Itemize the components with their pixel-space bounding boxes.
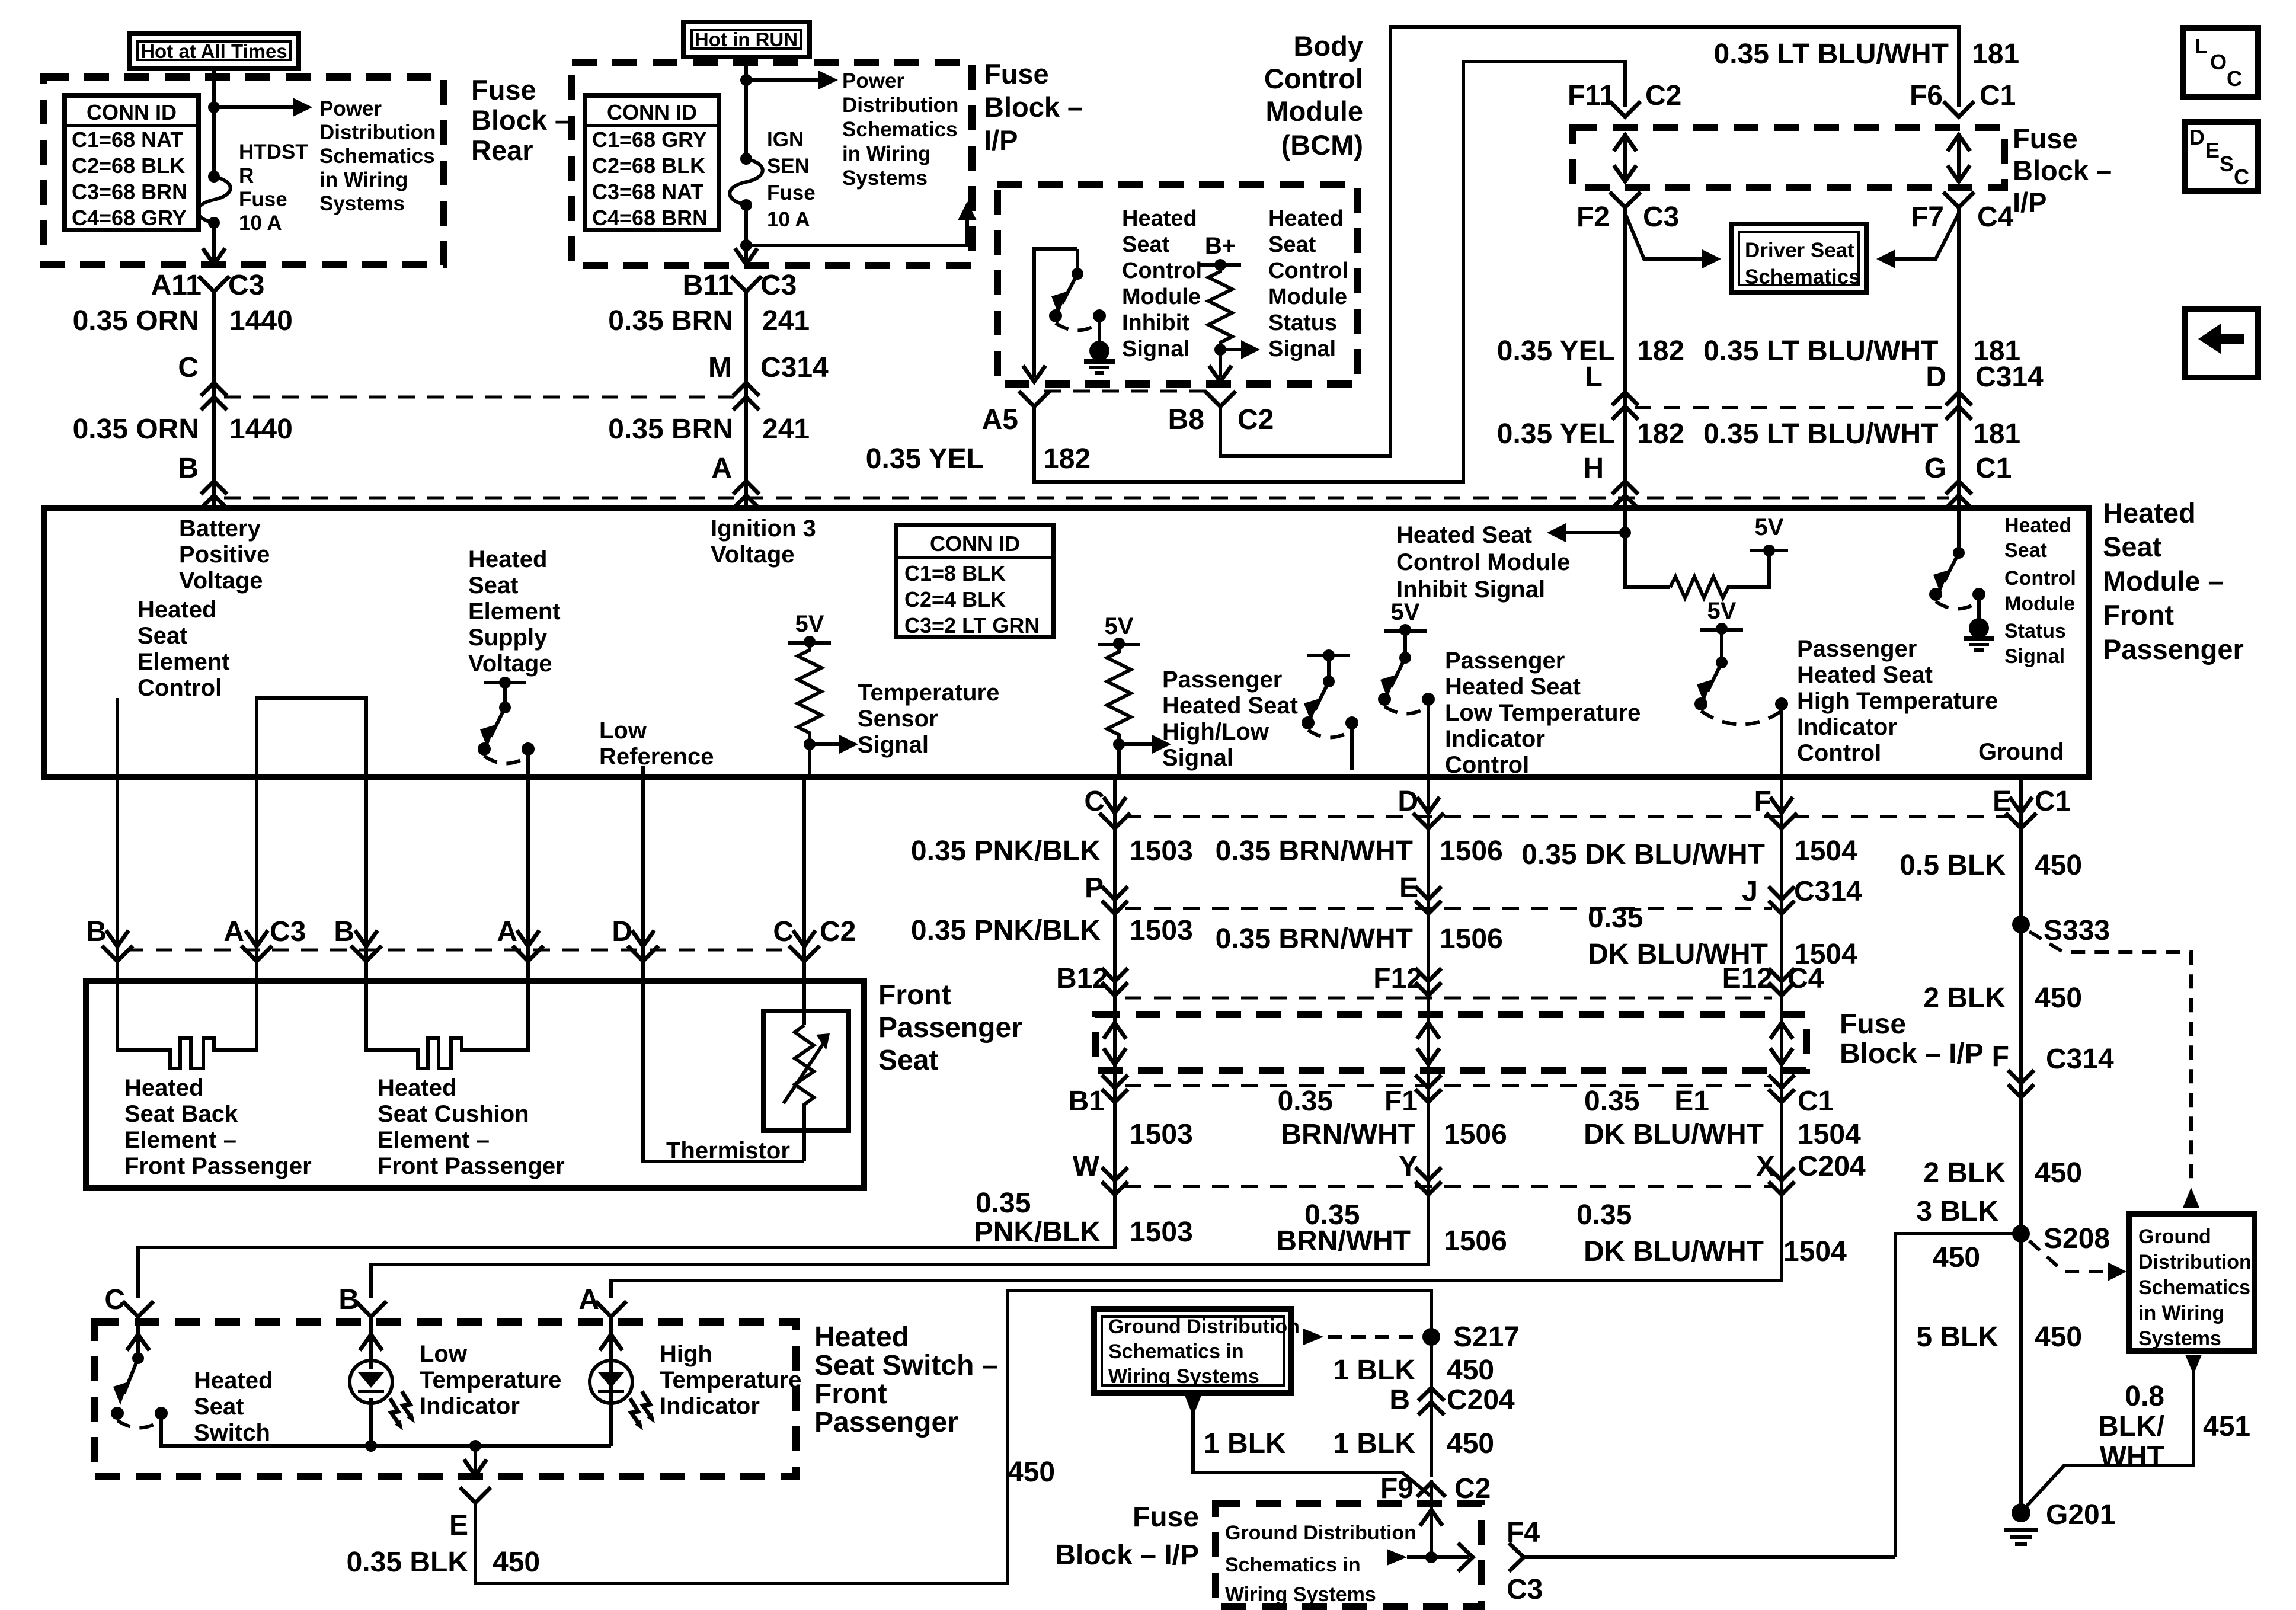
svg-text:C4: C4	[1787, 963, 1824, 994]
svg-text:C3: C3	[1643, 201, 1679, 233]
module E ground wire	[2019, 777, 2023, 1513]
svg-text:Heated: Heated	[2004, 514, 2071, 537]
svg-text:Schematics in: Schematics in	[1108, 1340, 1244, 1363]
wire element control stub	[116, 698, 119, 777]
svg-text:C3=2 LT GRN: C3=2 LT GRN	[904, 613, 1040, 638]
svg-text:Element: Element	[137, 649, 230, 675]
svg-text:0.35 YEL: 0.35 YEL	[1497, 418, 1615, 450]
svg-text:G201: G201	[2046, 1499, 2115, 1531]
svg-text:10 A: 10 A	[239, 212, 282, 235]
svg-text:182: 182	[1043, 443, 1091, 475]
connector line A5-B8	[1044, 390, 1210, 393]
connector A11/C3	[199, 276, 229, 292]
svg-text:C314: C314	[2046, 1044, 2114, 1075]
svg-text:C314: C314	[1794, 876, 1862, 907]
svg-text:Systems: Systems	[842, 167, 928, 190]
LED light arrows 2	[630, 1398, 639, 1425]
ground distribution schematics box right	[2129, 1214, 2255, 1351]
svg-text:Low: Low	[599, 718, 647, 744]
svg-text:1504: 1504	[1783, 1236, 1847, 1267]
svg-text:C1: C1	[1975, 453, 2012, 484]
BCM inhibit switch	[1034, 249, 1077, 377]
svg-text:Positive: Positive	[179, 542, 270, 568]
svg-text:Wiring Systems: Wiring Systems	[1108, 1365, 1259, 1388]
svg-text:1506: 1506	[1440, 836, 1503, 867]
wire F9 into box	[1430, 1480, 1433, 1557]
connector B11/C3	[731, 276, 762, 292]
svg-text:C1=68 NAT: C1=68 NAT	[72, 127, 183, 152]
wire 1503 pin C column	[138, 777, 1115, 1298]
svg-text:Schematics in: Schematics in	[1225, 1554, 1361, 1576]
element supply switch	[484, 681, 526, 684]
connector B8 C2	[1205, 391, 1236, 406]
svg-text:F: F	[1754, 786, 1771, 817]
svg-text:BLK/: BLK/	[2098, 1411, 2164, 1442]
svg-text:Front: Front	[2103, 599, 2174, 630]
svg-text:C: C	[2227, 66, 2242, 91]
svg-text:L: L	[2195, 34, 2208, 58]
svg-text:Inhibit: Inhibit	[1122, 311, 1189, 335]
svg-text:Passenger: Passenger	[814, 1407, 958, 1438]
svg-text:Ground Distribution: Ground Distribution	[1108, 1315, 1300, 1338]
svg-text:BRN/WHT: BRN/WHT	[1276, 1225, 1411, 1257]
svg-text:A11: A11	[151, 270, 202, 301]
wire BCM A5 to F11	[1034, 62, 1625, 482]
svg-text:Seat: Seat	[2103, 531, 2162, 562]
svg-text:Module: Module	[1122, 284, 1201, 309]
svg-text:Heated Seat: Heated Seat	[1396, 522, 1532, 548]
svg-text:E: E	[2205, 138, 2220, 162]
pin E drop	[474, 1446, 477, 1472]
resistor horizontal	[1670, 552, 1769, 598]
svg-text:Control: Control	[1122, 258, 1202, 283]
svg-text:Distribution: Distribution	[319, 121, 436, 144]
bus junction dots	[365, 1440, 377, 1452]
thermistor arrow	[784, 1043, 824, 1103]
svg-text:0.8: 0.8	[2125, 1381, 2164, 1412]
arrow F2 to driver seat schematics	[1625, 213, 1702, 259]
svg-text:S217: S217	[1453, 1321, 1520, 1353]
svg-text:Switch: Switch	[194, 1420, 270, 1446]
svg-text:Systems: Systems	[319, 192, 405, 215]
svg-text:in Wiring: in Wiring	[2138, 1302, 2224, 1324]
svg-text:Schematics: Schematics	[319, 145, 435, 168]
svg-text:0.35 BRN: 0.35 BRN	[608, 305, 733, 337]
svg-text:Voltage: Voltage	[468, 651, 552, 677]
svg-text:0.35 BLK: 0.35 BLK	[347, 1547, 469, 1578]
wire BCM B8 to F6	[1220, 27, 1959, 456]
connector C314 dashed line right	[1635, 406, 1949, 409]
connector A5	[1019, 391, 1050, 406]
svg-text:F1: F1	[1384, 1086, 1418, 1117]
splice S208	[2012, 1225, 2030, 1243]
svg-text:IGN: IGN	[767, 128, 804, 151]
svg-text:Signal: Signal	[1268, 337, 1336, 361]
svg-text:Fuse: Fuse	[1840, 1009, 1906, 1040]
svg-text:0.35: 0.35	[1278, 1086, 1333, 1117]
svg-text:in Wiring: in Wiring	[319, 168, 408, 191]
wire hot-at-all-times feed	[212, 68, 216, 177]
svg-text:F11: F11	[1568, 80, 1615, 111]
svg-text:Seat: Seat	[468, 572, 519, 598]
wire 0.35 BLK 450 route to F9	[475, 1291, 1431, 1583]
ground distribution schematics box left	[1094, 1309, 1291, 1393]
svg-text:B12: B12	[1056, 963, 1108, 994]
svg-text:Heated Seat: Heated Seat	[1797, 662, 1933, 688]
fuse block I/P bottom dashed box	[1216, 1504, 1482, 1607]
svg-text:241: 241	[762, 305, 810, 337]
connector dashed line below module	[1125, 815, 2011, 818]
svg-text:181: 181	[1972, 39, 2019, 70]
svg-text:0.35 LT BLU/WHT: 0.35 LT BLU/WHT	[1703, 418, 1938, 450]
fuse block - rear dashed box	[44, 77, 444, 265]
svg-text:Control: Control	[1264, 63, 1363, 94]
svg-text:Seat Back: Seat Back	[124, 1101, 238, 1127]
wire 0.8 BLK/WHT 451	[2185, 1355, 2202, 1375]
connector C4 dashed line	[1125, 997, 1772, 1000]
svg-text:Block – I/P: Block – I/P	[1840, 1038, 1984, 1070]
svg-text:B: B	[334, 916, 354, 948]
splice S333	[2012, 916, 2030, 933]
wire F2 down to module H	[1623, 207, 1627, 508]
svg-text:182: 182	[1637, 335, 1684, 367]
LED light arrows	[390, 1398, 399, 1425]
svg-text:1 BLK: 1 BLK	[1333, 1355, 1415, 1386]
svg-text:Seat Cushion: Seat Cushion	[378, 1101, 529, 1127]
svg-text:450: 450	[2035, 850, 2082, 881]
svg-text:Body: Body	[1294, 30, 1364, 62]
heated seat cushion element	[366, 981, 528, 1068]
svg-text:0.35 BRN/WHT: 0.35 BRN/WHT	[1216, 923, 1413, 955]
svg-text:C: C	[178, 352, 199, 383]
svg-text:1503: 1503	[1130, 836, 1193, 867]
svg-text:D: D	[612, 916, 632, 948]
svg-text:Ignition 3: Ignition 3	[711, 516, 816, 542]
connector C314 dashed line left	[224, 396, 736, 399]
svg-text:CONN ID: CONN ID	[607, 100, 697, 124]
svg-text:D: D	[1926, 361, 1946, 393]
high temperature indicator LED	[590, 1361, 632, 1403]
wire 1504 pin F column	[611, 777, 1782, 1298]
svg-text:Block – I/P: Block – I/P	[1055, 1539, 1199, 1571]
svg-text:C4=68 BRN: C4=68 BRN	[592, 206, 708, 230]
seat connector dashed line	[127, 949, 795, 952]
svg-text:Voltage: Voltage	[179, 568, 263, 594]
svg-text:450: 450	[493, 1547, 540, 1578]
svg-text:0.35 DK BLU/WHT: 0.35 DK BLU/WHT	[1521, 839, 1765, 870]
svg-text:B1: B1	[1069, 1086, 1105, 1117]
CONN ID table 2	[585, 95, 719, 230]
svg-text:Heated: Heated	[194, 1368, 273, 1394]
module G wire status switch	[1957, 508, 1961, 553]
svg-text:Temperature: Temperature	[420, 1367, 561, 1393]
svg-text:B11: B11	[683, 270, 733, 301]
module connector dashed line	[224, 497, 1949, 500]
svg-text:C3: C3	[270, 916, 306, 948]
svg-text:Control: Control	[2004, 567, 2076, 590]
svg-text:450: 450	[1933, 1242, 1980, 1273]
svg-text:C2: C2	[1237, 404, 1274, 436]
svg-text:C2: C2	[1454, 1473, 1491, 1505]
svg-text:5V: 5V	[1707, 598, 1737, 624]
svg-text:C1=8 BLK: C1=8 BLK	[904, 561, 1006, 585]
svg-text:450: 450	[1447, 1428, 1494, 1459]
splice S217	[1422, 1328, 1440, 1346]
svg-text:C: C	[104, 1284, 125, 1315]
svg-text:Control Module: Control Module	[1396, 549, 1570, 575]
svg-text:Supply: Supply	[468, 625, 548, 651]
DESC box	[2185, 122, 2258, 191]
dashed ref from S333 to ground distribution box	[2029, 932, 2191, 1185]
svg-text:Passenger: Passenger	[2103, 633, 2244, 665]
svg-text:1440: 1440	[229, 414, 293, 445]
heated seat switch dashed box	[94, 1322, 796, 1476]
svg-text:Seat: Seat	[1268, 232, 1316, 257]
svg-text:0.35: 0.35	[1588, 902, 1643, 934]
svg-text:Signal: Signal	[1162, 745, 1233, 771]
arrow to power distribution 2	[746, 78, 818, 82]
svg-text:450: 450	[1008, 1457, 1055, 1488]
CONN ID table 3	[896, 525, 1054, 637]
svg-text:Fuse: Fuse	[2013, 123, 2078, 154]
svg-text:Ground: Ground	[2138, 1225, 2211, 1248]
wire F4 to S208 branch	[1524, 1555, 1895, 1559]
svg-text:C3: C3	[228, 270, 264, 301]
svg-text:A: A	[223, 916, 244, 948]
svg-text:Element –: Element –	[124, 1127, 236, 1153]
status switch ground	[1969, 618, 1989, 638]
svg-text:1 BLK: 1 BLK	[1333, 1428, 1415, 1459]
svg-text:C3=68 NAT: C3=68 NAT	[592, 180, 703, 204]
wire element bridge loop	[257, 698, 366, 777]
svg-text:Fuse: Fuse	[1133, 1502, 1199, 1533]
wire supply switch to pin A	[526, 749, 530, 777]
front passenger seat box	[86, 981, 864, 1188]
svg-text:A5: A5	[982, 404, 1018, 436]
fuse element arrows middle block	[1113, 1020, 1117, 1064]
svg-text:E: E	[449, 1510, 468, 1541]
fuse element arrows inside block	[1623, 133, 1627, 181]
svg-text:0.35 ORN: 0.35 ORN	[73, 305, 199, 337]
wire low reference to thermistor	[643, 981, 804, 1161]
CONN ID table 1	[65, 95, 199, 230]
svg-text:2 BLK: 2 BLK	[1923, 1157, 2006, 1189]
svg-text:Indicator: Indicator	[1797, 714, 1897, 740]
arrow inhibit signal left	[1566, 531, 1625, 534]
svg-text:C314: C314	[1975, 361, 2044, 393]
svg-text:Low Temperature: Low Temperature	[1445, 700, 1641, 726]
svg-text:Indicator: Indicator	[1445, 726, 1545, 752]
node junction dot	[740, 74, 752, 86]
svg-text:0.35 BRN/WHT: 0.35 BRN/WHT	[1216, 836, 1413, 867]
svg-text:C4: C4	[1977, 201, 2014, 233]
svg-text:451: 451	[2203, 1411, 2250, 1442]
svg-text:Heated Seat: Heated Seat	[1445, 674, 1581, 700]
svg-text:Heated: Heated	[814, 1321, 909, 1353]
arrow out of fuse block	[203, 248, 225, 264]
svg-text:Heated: Heated	[124, 1075, 203, 1101]
svg-text:Fuse: Fuse	[471, 74, 536, 105]
svg-text:Heated: Heated	[1122, 206, 1197, 231]
svg-text:Fuse: Fuse	[984, 58, 1049, 89]
svg-text:Element –: Element –	[378, 1127, 490, 1153]
module H wire to 5V resistor	[1625, 508, 1670, 587]
svg-text:Heated: Heated	[2103, 497, 2196, 529]
svg-text:Signal: Signal	[858, 732, 929, 758]
svg-text:C2: C2	[820, 916, 856, 948]
svg-text:Control: Control	[1797, 740, 1881, 766]
svg-text:B: B	[178, 453, 199, 484]
fuse block - I/P top dashed box	[572, 62, 972, 265]
svg-text:X: X	[1756, 1151, 1775, 1182]
svg-text:C3=68 BRN: C3=68 BRN	[72, 180, 187, 204]
svg-text:1506: 1506	[1444, 1225, 1507, 1257]
svg-text:Power: Power	[319, 97, 382, 120]
svg-text:0.35 BRN: 0.35 BRN	[608, 414, 733, 445]
svg-text:CONN ID: CONN ID	[930, 532, 1020, 556]
svg-text:Driver Seat: Driver Seat	[1745, 239, 1854, 262]
svg-text:E1: E1	[1674, 1086, 1709, 1117]
svg-text:Seat: Seat	[2004, 539, 2047, 562]
svg-text:C3: C3	[760, 270, 797, 301]
svg-text:5 BLK: 5 BLK	[1916, 1321, 1998, 1353]
svg-text:Rear: Rear	[471, 135, 533, 166]
svg-text:5V: 5V	[1755, 514, 1784, 540]
connector C204 dashed line	[1125, 1185, 1772, 1188]
svg-text:Heated: Heated	[1268, 206, 1344, 231]
svg-text:Sensor: Sensor	[858, 706, 938, 732]
BCM dashed box	[997, 185, 1357, 384]
svg-text:R: R	[239, 164, 254, 187]
dashed ref S208 to ground distribution box	[2029, 1241, 2108, 1272]
svg-text:5V: 5V	[1391, 599, 1420, 625]
svg-text:450: 450	[1447, 1355, 1494, 1386]
svg-text:Low: Low	[420, 1341, 468, 1367]
seat wires from module	[116, 777, 119, 981]
svg-text:1440: 1440	[229, 305, 293, 337]
svg-text:High: High	[660, 1341, 712, 1367]
svg-text:Signal: Signal	[1122, 337, 1189, 361]
svg-text:Battery: Battery	[179, 516, 261, 542]
svg-text:L: L	[1585, 361, 1603, 393]
svg-text:Block –: Block –	[471, 104, 570, 136]
svg-text:Reference: Reference	[599, 744, 714, 770]
svg-text:A: A	[497, 916, 517, 948]
thermistor wires	[802, 981, 806, 1025]
svg-text:B8: B8	[1168, 404, 1204, 436]
fuse block I/P right dashed box	[1572, 127, 2004, 187]
svg-text:Heated Seat: Heated Seat	[1162, 693, 1298, 719]
heated seat switch symbol	[132, 1352, 144, 1364]
svg-text:B: B	[86, 916, 107, 948]
svg-text:C204: C204	[1798, 1151, 1866, 1182]
svg-text:0.5 BLK: 0.5 BLK	[1900, 850, 2006, 881]
svg-text:1506: 1506	[1444, 1119, 1507, 1150]
nav arrow box	[2185, 309, 2258, 377]
svg-text:450: 450	[2035, 1321, 2082, 1353]
svg-text:C2: C2	[1645, 80, 1681, 111]
svg-text:W: W	[1073, 1151, 1100, 1182]
wire 1506 pin D column	[371, 777, 1428, 1298]
svg-text:Front: Front	[814, 1378, 887, 1410]
svg-text:Systems: Systems	[2138, 1327, 2221, 1350]
svg-text:F: F	[1992, 1041, 2009, 1073]
svg-text:C: C	[773, 916, 794, 948]
svg-text:0.35 LT BLU/WHT: 0.35 LT BLU/WHT	[1703, 335, 1938, 367]
svg-text:Fuse: Fuse	[767, 181, 816, 204]
arrow to power distribution	[214, 105, 293, 109]
svg-text:Signal: Signal	[2004, 645, 2065, 668]
return arrow to systems text	[740, 239, 752, 251]
svg-text:1 BLK: 1 BLK	[1204, 1428, 1286, 1459]
svg-text:Seat: Seat	[194, 1394, 244, 1420]
svg-text:E: E	[1993, 786, 2012, 817]
svg-text:F6: F6	[1910, 80, 1943, 111]
svg-text:1504: 1504	[1798, 1119, 1861, 1150]
svg-text:C3: C3	[1507, 1574, 1543, 1605]
svg-text:C4=68 GRY: C4=68 GRY	[72, 206, 187, 230]
svg-text:1503: 1503	[1130, 1217, 1193, 1248]
svg-text:(BCM): (BCM)	[1281, 129, 1363, 161]
arrow out of fuse block 2	[735, 248, 757, 264]
wire 3 BLK branch	[1895, 1234, 2021, 1557]
svg-text:2 BLK: 2 BLK	[1923, 982, 2006, 1014]
fuse block I/P middle dashed box	[1095, 1014, 1806, 1070]
svg-text:Element: Element	[468, 598, 561, 625]
svg-text:Seat Switch –: Seat Switch –	[814, 1350, 997, 1381]
svg-text:Hot at All Times: Hot at All Times	[140, 40, 287, 62]
svg-text:Temperature: Temperature	[858, 680, 999, 706]
heated seat module box	[44, 508, 2089, 777]
svg-text:I/P: I/P	[984, 124, 1018, 156]
svg-text:Schematics: Schematics	[2138, 1276, 2250, 1299]
svg-text:I/P: I/P	[2013, 187, 2046, 218]
svg-text:F12: F12	[1373, 963, 1422, 994]
svg-text:Distribution: Distribution	[2138, 1251, 2252, 1273]
svg-text:C2=4 BLK: C2=4 BLK	[904, 587, 1006, 612]
low temperature indicator LED	[350, 1361, 392, 1403]
svg-text:PNK/BLK: PNK/BLK	[974, 1217, 1101, 1248]
svg-text:B: B	[1389, 1384, 1410, 1416]
fuse IGN SEN 10A	[740, 153, 752, 165]
svg-text:5V: 5V	[1105, 613, 1134, 639]
svg-text:C1: C1	[2035, 786, 2071, 817]
svg-text:Hot in RUN: Hot in RUN	[695, 28, 798, 50]
svg-text:J: J	[1742, 876, 1758, 907]
svg-text:Seat: Seat	[137, 623, 188, 649]
connector C314 dashed line row2	[1125, 907, 1772, 910]
arrow into F4	[1387, 1549, 1407, 1566]
svg-text:Thermistor: Thermistor	[666, 1138, 790, 1164]
svg-text:CONN ID: CONN ID	[87, 100, 177, 124]
svg-text:0.35 LT BLU/WHT: 0.35 LT BLU/WHT	[1714, 39, 1949, 70]
driver seat schematics box	[1731, 224, 1866, 293]
wire S217 down through C204 to F9	[1430, 1327, 1433, 1477]
svg-text:High Temperature: High Temperature	[1797, 688, 1998, 714]
svg-text:SEN: SEN	[767, 155, 810, 178]
arrows into switch box	[127, 1334, 149, 1350]
svg-text:F7: F7	[1911, 201, 1944, 233]
LOC box	[2183, 28, 2258, 97]
svg-text:182: 182	[1637, 418, 1684, 450]
wire low reference stub	[641, 766, 645, 777]
svg-text:3 BLK: 3 BLK	[1916, 1196, 1998, 1227]
svg-text:C1=68 GRY: C1=68 GRY	[592, 127, 707, 152]
svg-text:450: 450	[2035, 982, 2082, 1014]
svg-text:Temperature: Temperature	[660, 1367, 801, 1393]
svg-text:Indicator: Indicator	[660, 1393, 760, 1419]
svg-text:F2: F2	[1576, 201, 1610, 233]
